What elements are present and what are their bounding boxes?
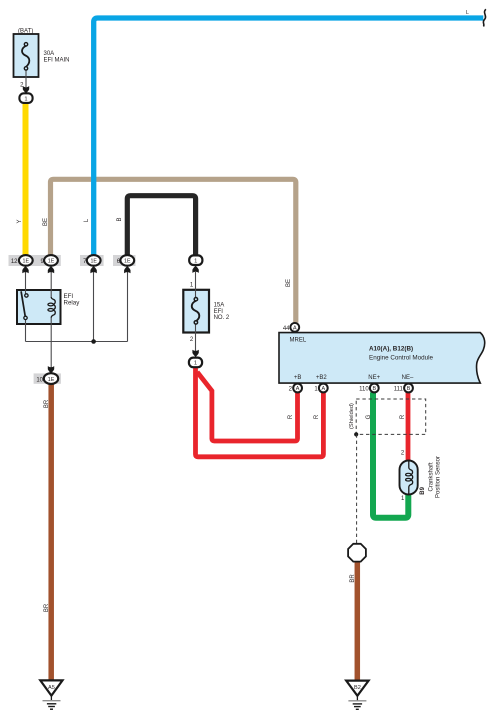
svg-text:A: A [293, 326, 297, 332]
connector strip 7 1E background [80, 255, 104, 266]
wire G green NE+ to sensor pin1 [373, 392, 408, 517]
svg-text:B2: B2 [354, 685, 361, 691]
connector oval 1E-7 [87, 255, 101, 266]
svg-text:Crankshaft: Crankshaft [428, 462, 434, 491]
thin wire relay coil bottom to 1E-10 [50, 317, 52, 368]
svg-text:2: 2 [289, 387, 293, 393]
arrow into connector 1 below fuse1 [23, 86, 29, 93]
thin wire 1E-12 to relay switch [25, 272, 27, 295]
thin wire relay switch bottom down [25, 318, 27, 342]
connector strip 12/9 1E background [9, 255, 61, 266]
arrow into 1E-12 [22, 266, 28, 273]
wire R red outer fuse2 to +B2 [196, 367, 324, 457]
wire continuation squiggle [483, 9, 486, 26]
svg-text:1: 1 [190, 282, 194, 288]
relay switch [21, 291, 25, 316]
thin wire black oval to fuse2 top [195, 272, 197, 299]
svg-text:R: R [314, 414, 320, 419]
arrow into 1E-6 [124, 266, 130, 273]
svg-text:A: A [296, 386, 300, 392]
svg-text:MREL: MREL [290, 338, 307, 344]
svg-text:2: 2 [401, 451, 405, 457]
svg-text:L: L [84, 218, 90, 222]
connector oval 1 below fuse2 [189, 358, 202, 368]
connector oval 1 below fuse1 [19, 93, 32, 103]
svg-text:R: R [400, 414, 406, 419]
svg-text:1: 1 [24, 96, 27, 102]
svg-text:10: 10 [36, 377, 43, 383]
junction node on bus at 1E-7 line [91, 339, 96, 344]
arrow into black oval 1 [192, 266, 198, 273]
svg-text:B: B [117, 217, 123, 221]
connector oval 1 above fuse2 [189, 255, 202, 265]
shield dashed drain wire [356, 434, 358, 543]
svg-text:BE: BE [43, 218, 49, 226]
svg-text:1: 1 [194, 259, 197, 265]
fuse F1 30A EFI MAIN box [14, 34, 39, 77]
ground B2 [346, 681, 368, 696]
arrow into 1E-9 [48, 266, 54, 273]
svg-text:1E: 1E [90, 259, 97, 265]
wire L cyan horizontal and vertical [94, 18, 484, 256]
shield octagon [348, 544, 366, 562]
svg-text:(BAT): (BAT) [18, 28, 33, 34]
svg-text:Relay: Relay [64, 300, 81, 307]
wire R red NE- to sensor pin2 [406, 392, 411, 461]
svg-text:B: B [407, 386, 411, 392]
wire Y yellow fuse to 1E [23, 103, 29, 256]
svg-text:Engine Control Module: Engine Control Module [369, 355, 434, 362]
wire BR brown right shield to ground B2 [355, 561, 361, 680]
connector oval 1E-12 [19, 255, 33, 266]
svg-text:1E: 1E [23, 259, 30, 265]
svg-text:+B: +B [294, 375, 302, 381]
svg-text:R: R [288, 414, 294, 419]
svg-text:L: L [466, 10, 469, 16]
ground A5 [40, 680, 62, 695]
arrow into oval 1 below fuse2 [192, 350, 198, 357]
thin wire 1E-6 down [127, 272, 129, 342]
ECM pin 44 A circle [290, 323, 299, 332]
svg-text:B9: B9 [420, 486, 426, 494]
svg-text:BR: BR [44, 603, 50, 612]
connector oval 1E-10 [44, 373, 58, 384]
svg-text:NE+: NE+ [368, 375, 380, 381]
ECM pin 110 B circle [370, 384, 379, 393]
svg-text:Position Sensor: Position Sensor [435, 456, 441, 498]
wire BE tan relay to ECM MREL [51, 179, 296, 322]
svg-text:BR: BR [44, 399, 50, 408]
svg-text:NO. 2: NO. 2 [214, 315, 230, 321]
svg-text:(Shielded): (Shielded) [349, 403, 355, 429]
connector strip 6 1E background [113, 255, 136, 266]
ECM pin 1 A circle [319, 384, 328, 393]
arrow into 1E-10 [48, 366, 54, 373]
thin wire 1E-9 to relay coil [50, 272, 52, 298]
thin wire fuse2 bottom to oval 1 [195, 323, 197, 357]
ECM pin 2 A circle [293, 384, 302, 393]
ECM pin 111 B circle [404, 384, 413, 393]
svg-text:30A: 30A [44, 51, 55, 57]
wire B black 1E to fuse EFI NO.2 [127, 196, 195, 256]
arrow into 1E-7 [90, 266, 96, 273]
svg-text:EFI: EFI [214, 309, 224, 315]
thin wire horizontal bus under relay [26, 341, 128, 343]
svg-text:1E: 1E [48, 259, 55, 265]
connector oval 1E-6 [120, 255, 134, 266]
ECM box A10(A) B12(B) Engine Control Module [279, 333, 485, 384]
thin wire fuse1 bottom to connector 1 [25, 70, 27, 87]
relay coil [51, 297, 55, 318]
svg-text:A5: A5 [48, 685, 55, 691]
svg-text:NE–: NE– [402, 375, 414, 381]
svg-text:+B2: +B2 [316, 375, 328, 381]
wire BR brown left 1E to ground A5 [48, 384, 54, 680]
svg-text:12: 12 [11, 259, 18, 265]
connector oval 1E-9 [44, 255, 58, 266]
svg-text:1: 1 [314, 387, 318, 393]
svg-text:111: 111 [394, 387, 404, 393]
svg-text:A10(A), B12(B): A10(A), B12(B) [369, 346, 413, 353]
fuse F2 element [192, 301, 200, 321]
svg-text:110: 110 [359, 387, 369, 393]
fuse F2 15A EFI NO.2 box [183, 290, 209, 333]
svg-text:BR: BR [350, 574, 356, 583]
svg-text:1: 1 [401, 496, 405, 502]
svg-text:2: 2 [190, 337, 194, 343]
svg-text:A: A [321, 386, 325, 392]
sensor coil symbol [409, 461, 413, 494]
svg-text:EFI MAIN: EFI MAIN [44, 57, 70, 63]
svg-text:44: 44 [283, 326, 290, 332]
svg-text:1E: 1E [124, 259, 131, 265]
thin wire 1E-7 down [93, 272, 95, 342]
fuse F1 element [22, 46, 29, 67]
svg-text:1: 1 [194, 361, 197, 367]
svg-text:15A: 15A [214, 303, 225, 309]
svg-text:BE: BE [286, 279, 292, 287]
relay box EFI Relay [17, 290, 61, 324]
svg-text:B: B [372, 386, 376, 392]
wire R red inner fuse2 to +B [197, 372, 297, 441]
shield dashed box [356, 399, 426, 434]
svg-text:1E: 1E [48, 377, 55, 383]
crankshaft position sensor capsule [400, 461, 418, 495]
svg-text:Y: Y [17, 219, 23, 223]
svg-text:G: G [366, 414, 372, 419]
connector strip 10 1E background [34, 373, 61, 383]
shield junction dot [354, 432, 358, 436]
